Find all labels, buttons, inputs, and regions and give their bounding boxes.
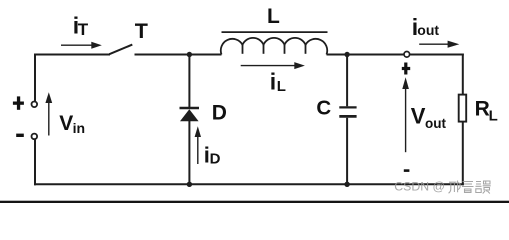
watermark CJK glyph 1 (Xing) bbox=[449, 181, 461, 194]
watermark CSDN bbox=[394, 179, 445, 193]
inductor L coil bbox=[221, 38, 327, 55]
svg-text:out: out bbox=[425, 116, 446, 131]
node junction dot top diode bbox=[187, 52, 192, 57]
wire inductor to right corner bbox=[327, 54, 464, 56]
svg-text:CSDN @: CSDN @ bbox=[394, 179, 445, 193]
wire left vertical upper bbox=[34, 54, 36, 102]
wire bottom horizontal bbox=[34, 183, 464, 185]
svg-text:T: T bbox=[135, 19, 148, 43]
wire top-left horizontal bbox=[34, 54, 110, 56]
wire left vertical lower bbox=[34, 139, 36, 185]
node junction dot bottom diode bbox=[187, 182, 192, 187]
label Vout minus sign bbox=[404, 169, 410, 172]
wire diode branch upper bbox=[188, 55, 190, 108]
node Vin- terminal circle bbox=[32, 134, 38, 140]
svg-text:D: D bbox=[212, 102, 227, 125]
wire diode branch lower bbox=[188, 121, 190, 186]
node Vin+ terminal circle bbox=[32, 102, 38, 108]
arrow iD (up) bbox=[195, 126, 201, 164]
arrow iT bbox=[61, 42, 102, 49]
svg-text:V: V bbox=[411, 104, 426, 129]
watermark CJK glyph 2 (Rui) bbox=[462, 182, 474, 193]
svg-text:D: D bbox=[210, 150, 221, 167]
wire right vertical lower bbox=[462, 122, 464, 186]
node junction dot top capacitor bbox=[344, 52, 349, 57]
svg-text:out: out bbox=[417, 22, 439, 38]
resistor RL body bbox=[459, 95, 467, 122]
svg-text:i: i bbox=[270, 68, 276, 94]
switch T blade bbox=[109, 45, 132, 55]
capacitor C bottom plate bbox=[339, 115, 356, 118]
label Vin minus sign bbox=[16, 134, 24, 137]
capacitor C top plate bbox=[339, 106, 356, 108]
wire capacitor branch lower bbox=[346, 118, 348, 185]
diode D triangle bbox=[180, 109, 199, 121]
wire switch right contact to inductor bbox=[135, 54, 222, 56]
svg-text:L: L bbox=[277, 78, 286, 95]
watermark CJK glyph 3 (Xuan) bbox=[476, 181, 491, 194]
node open circle output bbox=[404, 52, 410, 58]
inductor L top bar bbox=[222, 31, 328, 33]
inductor coil tick 2 bbox=[263, 45, 265, 54]
arrow iout bbox=[419, 41, 459, 48]
svg-text:L: L bbox=[267, 5, 280, 28]
inductor coil tick 4 bbox=[305, 45, 307, 54]
label Vout plus sign bbox=[404, 63, 407, 75]
arrow Vout (up) bbox=[402, 77, 409, 152]
svg-text:T: T bbox=[78, 20, 89, 39]
arrow Vin (up) bbox=[45, 92, 52, 135]
diode D cathode bar bbox=[180, 107, 200, 110]
bottom rule line bbox=[0, 201, 509, 203]
wire capacitor branch upper bbox=[346, 55, 348, 107]
svg-text:V: V bbox=[59, 112, 73, 135]
inductor coil tick 1 bbox=[242, 45, 244, 54]
label Vin plus sign bbox=[17, 96, 20, 109]
inductor coil tick 3 bbox=[284, 45, 286, 54]
svg-text:L: L bbox=[489, 107, 498, 124]
wire right vertical upper bbox=[462, 54, 464, 96]
node junction dot bottom capacitor bbox=[344, 182, 349, 187]
svg-text:C: C bbox=[316, 97, 331, 120]
svg-text:in: in bbox=[73, 120, 85, 136]
arrow iL bbox=[241, 62, 305, 69]
svg-text:R: R bbox=[475, 97, 490, 120]
